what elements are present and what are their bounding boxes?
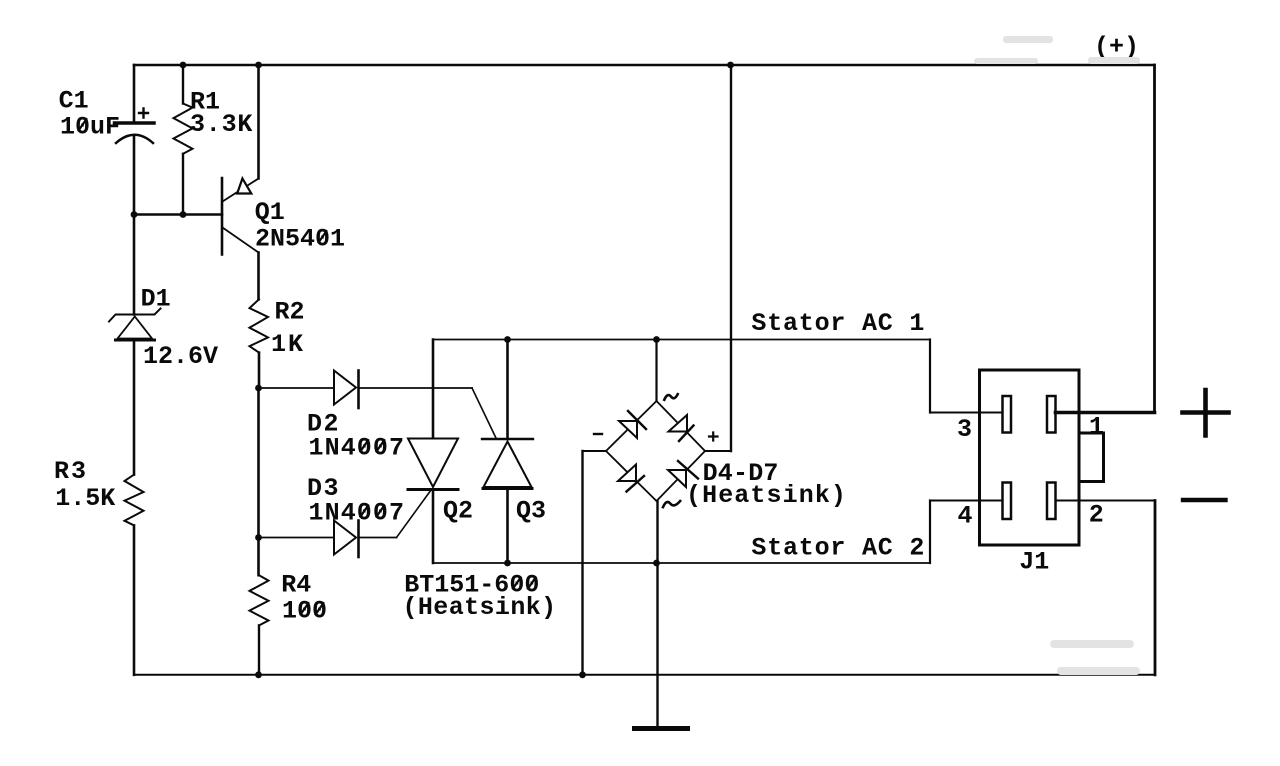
- bridge diode bottom-left cathode bar: [627, 476, 645, 492]
- connector J1 pin 4 slot: [1003, 483, 1012, 520]
- node label AC tilde top: [664, 393, 679, 401]
- bridge diode top-left cathode bar: [628, 411, 646, 429]
- wire: Q3 cathode vertical: [506, 340, 509, 440]
- wire: Stator AC 2 into pin 4: [930, 500, 1003, 502]
- svg-text:(Heatsink): (Heatsink): [686, 481, 847, 510]
- resistor R4: [250, 575, 269, 625]
- junction D3 tap: [255, 534, 262, 541]
- transistor Q1 emitter arrow: [237, 179, 251, 194]
- wire: Q2 gate diagonal: [397, 490, 432, 538]
- connector J1 body: [980, 370, 1080, 545]
- wire: R2 bottom lead to D2 node: [258, 353, 261, 388]
- connector J1 pin 1 slot: [1047, 396, 1056, 433]
- wire: left rail R3 to bottom: [133, 525, 136, 674]
- svg-text:10uF: 10uF: [60, 112, 120, 141]
- svg-text:2N5401: 2N5401: [255, 224, 345, 253]
- resistor R2: [250, 299, 269, 352]
- bridge diode top-left triangle: [619, 421, 637, 438]
- wire: right rail top vertical: [1153, 65, 1156, 413]
- diode D2: [334, 371, 356, 405]
- slashed zero in 10uF: [78, 118, 87, 131]
- transistor Q1 collector diagonal: [223, 228, 259, 253]
- battery plus symbol: [1183, 390, 1229, 436]
- wire: Stator AC 2 horizontal: [433, 562, 930, 564]
- svg-text:Q3: Q3: [516, 497, 546, 526]
- slashed zero in 2N5401: [318, 230, 327, 243]
- connector J1 latch tab: [1079, 433, 1104, 482]
- svg-text:R3: R3: [54, 457, 88, 486]
- bridge diode top-right cathode bar: [679, 426, 694, 442]
- bridge minus polarity dash: [594, 433, 602, 435]
- svg-text:1.5K: 1.5K: [55, 484, 115, 513]
- junction left rail base node: [131, 211, 138, 218]
- bridge D4-D7 bottom-right edge: [657, 451, 706, 501]
- svg-text:12.6V: 12.6V: [143, 342, 218, 371]
- wire: D3 cathode to Q2 gate: [359, 537, 397, 539]
- svg-text:Stator AC 2: Stator AC 2: [751, 533, 925, 562]
- wire: bridge plus corner to vertical: [705, 450, 731, 452]
- svg-text:1K: 1K: [271, 330, 305, 359]
- svg-text:Q2: Q2: [443, 497, 473, 526]
- wire: left rail D1 to R3: [133, 341, 136, 475]
- wire: Q3 gate diagonal: [472, 388, 496, 438]
- svg-text:1N4007: 1N4007: [309, 499, 406, 528]
- diode D3 cathode bar: [357, 521, 360, 558]
- junction R1 bottom base node: [180, 211, 187, 218]
- node label AC tilde bottom: [663, 500, 682, 508]
- junction bridge bottom on AC2 wire: [653, 560, 660, 567]
- SCR Q2 triangle: [408, 439, 458, 488]
- wire: top (+) rail: [134, 64, 1155, 67]
- svg-text:C1: C1: [59, 86, 89, 115]
- svg-text:Q1: Q1: [255, 198, 285, 227]
- wire: bridge minus corner lead: [583, 450, 607, 452]
- slashed zeros in BT151-600: [512, 577, 536, 590]
- wire: R4 bottom lead: [258, 625, 260, 674]
- bridge diode bottom-left triangle: [618, 465, 636, 482]
- battery minus symbol: [1183, 498, 1226, 502]
- bridge diode bottom-right cathode bar: [678, 461, 698, 479]
- SCR Q2 cathode bar: [408, 488, 458, 491]
- zener diode D1 cathode bar: [109, 309, 161, 322]
- connector J1 pin 2 slot: [1047, 483, 1056, 520]
- wire: D3 anode lead: [259, 537, 335, 539]
- bridge D4-D7 top-right edge: [657, 401, 706, 451]
- wire: bridge bottom corner to ground: [656, 501, 658, 729]
- svg-text:1N4007: 1N4007: [309, 433, 406, 462]
- bridge D4-D7 bottom-left edge: [606, 451, 657, 501]
- wire: left rail base node to D1: [133, 215, 136, 315]
- wire: D2 anode lead: [259, 387, 335, 389]
- resistor R1: [174, 104, 193, 154]
- wire: Stator AC 1 horizontal: [433, 339, 930, 341]
- transistor Q1 base bar: [221, 178, 224, 255]
- zener diode D1 anode bar: [116, 339, 155, 342]
- SCR Q3 cathode bar: [482, 438, 533, 440]
- wire: Stator AC 1 into pin 3: [930, 412, 1003, 414]
- junction bridge top on AC1 wire: [653, 336, 660, 343]
- svg-text:Stator AC 1: Stator AC 1: [751, 309, 925, 338]
- wire: left rail segment above C1: [133, 65, 136, 123]
- wire: Q3 anode vertical: [506, 489, 509, 564]
- junction on top rail at plus vertical: [727, 62, 734, 69]
- diode D2 cathode bar: [357, 371, 360, 409]
- svg-text:100: 100: [282, 596, 327, 625]
- junction D2 tap: [255, 385, 262, 392]
- svg-text:2: 2: [1089, 501, 1104, 530]
- svg-text:3.3K: 3.3K: [190, 110, 253, 139]
- wire: left rail C1 to base node: [133, 136, 136, 215]
- capacitor C1 plus mark: [139, 109, 148, 118]
- wire: pin 1 to right rail: [1056, 411, 1155, 415]
- capacitor C1 top plate: [115, 121, 155, 125]
- slashed zeros in 100: [300, 602, 324, 615]
- wire: plus vertical from top rail to bridge: [730, 65, 732, 451]
- svg-text:1: 1: [1089, 413, 1104, 442]
- zener diode D1 triangle: [118, 317, 153, 339]
- bridge diode bottom-right triangle: [668, 470, 686, 487]
- svg-text:(Heatsink): (Heatsink): [403, 593, 557, 622]
- ground: [635, 726, 688, 731]
- junction on top rail at Q1 emitter: [255, 62, 262, 69]
- wire: Q1 emitter vertical to top rail: [257, 65, 260, 179]
- wire: D2 cathode to Q3 gate: [359, 387, 473, 389]
- slashed zeros in D2 1N4007: [360, 439, 385, 452]
- connector J1 pin 3 slot: [1003, 396, 1012, 433]
- wire: D3 node to R4: [257, 538, 260, 576]
- svg-text:D1: D1: [141, 284, 171, 313]
- wire: minus vertical to bottom rail: [581, 451, 583, 675]
- svg-text:R4: R4: [281, 571, 311, 600]
- wire: Q1 base wire: [134, 213, 222, 216]
- wire: bridge top corner vertical: [655, 340, 657, 402]
- wire: Q2 cathode vertical: [432, 490, 435, 564]
- svg-text:R2: R2: [275, 298, 305, 327]
- wire: D2 node to D3 node vertical: [257, 388, 260, 538]
- bridge diode top-right triangle: [669, 415, 688, 432]
- SCR Q3 anode base bar: [483, 487, 532, 490]
- transistor Q1 emitter diagonal: [223, 179, 259, 202]
- wire: Stator AC 1 corner vertical: [929, 340, 931, 413]
- SCR Q3 triangle: [484, 442, 532, 488]
- junction on top rail at R1: [180, 62, 187, 69]
- diode D3: [334, 521, 356, 555]
- wire: R1 top lead: [182, 65, 184, 104]
- junction R4 bottom rail: [255, 671, 262, 678]
- svg-text:4: 4: [958, 502, 973, 531]
- bridge plus polarity mark: [709, 433, 718, 441]
- junction Q3 top on AC1 wire: [504, 336, 511, 343]
- slashed zeros in D3 1N4007: [360, 505, 385, 518]
- wire: Q1 collector to R2: [257, 253, 260, 300]
- capacitor C1 curved plate: [116, 135, 153, 143]
- wire: Q2 anode vertical: [432, 340, 435, 439]
- wire: bottom-right vertical: [1154, 501, 1157, 675]
- junction minus vertical bottom rail: [579, 671, 586, 678]
- wire: pin 2 to bottom-right vertical: [1056, 500, 1156, 502]
- resistor R3: [125, 475, 144, 526]
- wire: Stator AC 2 corner vertical: [929, 501, 931, 564]
- svg-text:3: 3: [957, 415, 972, 444]
- junction Q3 bottom on AC2 wire: [504, 560, 511, 567]
- bridge D4-D7 top-left edge: [606, 401, 657, 451]
- svg-text:(+): (+): [1094, 32, 1139, 61]
- wire: bottom ground rail: [134, 674, 1155, 676]
- svg-text:J1: J1: [1019, 548, 1049, 577]
- wire: R1 bottom lead: [182, 154, 184, 215]
